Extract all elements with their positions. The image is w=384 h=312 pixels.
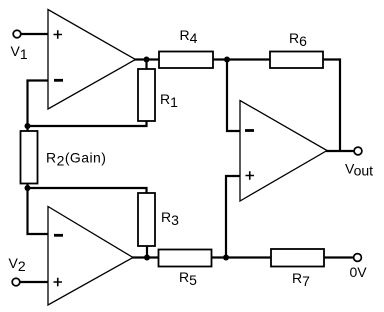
resistor R4 bbox=[159, 52, 213, 69]
wire down to U3 inverting input bbox=[227, 60, 240, 132]
resistor R5 bbox=[159, 250, 212, 267]
svg-text:Vout: Vout bbox=[345, 161, 373, 179]
wire V1 input bbox=[21, 33, 48, 35]
wire op1 inverting feedback (left-down) bbox=[28, 81, 49, 127]
wire op1 output to R4 bbox=[134, 58, 159, 60]
terminal V2 bbox=[12, 278, 20, 286]
wire op2 inverting input (down-right) bbox=[28, 188, 49, 234]
wire op2 output to R5 bbox=[132, 256, 159, 258]
resistor R1 bbox=[138, 69, 155, 121]
node junction op2 output bbox=[144, 255, 150, 261]
wire up to U3 non-inverting input bbox=[226, 176, 240, 258]
wire R1 top stub bbox=[145, 60, 147, 70]
op-amp U2 bbox=[48, 207, 133, 306]
wire feedback line to R1 bottom bbox=[28, 121, 147, 126]
resistor R7 bbox=[271, 249, 324, 267]
resistor R2 bbox=[21, 131, 38, 184]
wire R3 bottom stub bbox=[146, 246, 148, 258]
wire R5 to R7 bbox=[212, 256, 272, 258]
wire R2 bottom stub bbox=[26, 184, 28, 189]
node junction R2 bottom bbox=[25, 185, 31, 191]
wire U3 output bbox=[326, 150, 354, 152]
node junction R5-R7 bbox=[223, 255, 229, 261]
node junction R2 top bbox=[25, 123, 31, 129]
wire V2 input bbox=[20, 281, 48, 283]
op-amp U3 bbox=[240, 101, 327, 202]
svg-text:0V: 0V bbox=[350, 264, 368, 280]
wire feedback line to R3 top bbox=[28, 188, 147, 193]
wire R6 to output node bbox=[323, 60, 340, 152]
terminal Vout bbox=[354, 147, 362, 155]
terminal 0V bbox=[354, 254, 362, 262]
terminal V1 bbox=[13, 30, 21, 38]
node junction R4-R6 bbox=[224, 57, 230, 63]
wire R7 to 0V bbox=[324, 256, 354, 258]
resistor R6 bbox=[270, 52, 323, 69]
wire R2 top stub bbox=[26, 126, 28, 131]
resistor R3 bbox=[138, 193, 155, 246]
wire R4 to R6 bbox=[213, 58, 270, 60]
node junction op1 output bbox=[144, 57, 150, 63]
op-amp U1 bbox=[48, 10, 136, 110]
